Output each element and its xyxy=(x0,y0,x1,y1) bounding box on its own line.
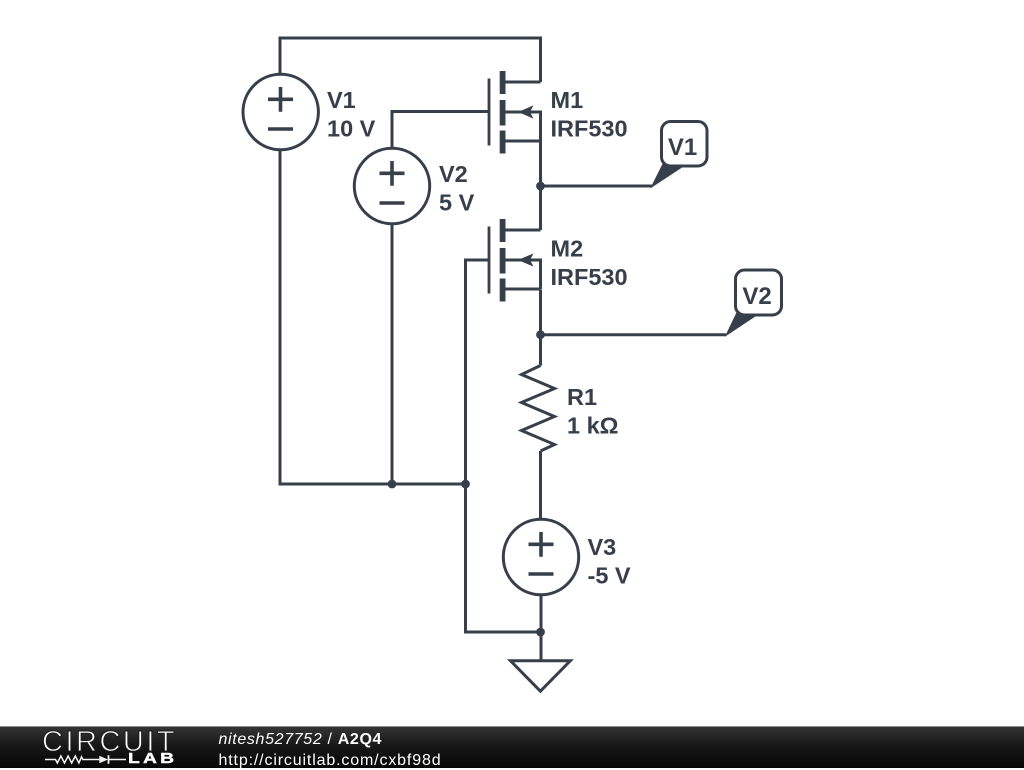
svg-text:V2: V2 xyxy=(439,161,468,187)
wire top rail V1.top to M1.drain xyxy=(280,38,541,82)
label R1 1 kOhm xyxy=(567,384,619,439)
svg-text:V2: V2 xyxy=(742,283,771,310)
node V2.bottom rail xyxy=(388,480,397,489)
wire V2.top to M1.gate xyxy=(392,112,488,149)
svg-text:M2: M2 xyxy=(551,236,584,262)
label M1 IRF530 xyxy=(551,87,628,142)
wire M2.gate down-rail to V3 bottom node xyxy=(466,260,541,632)
label M2 IRF530 xyxy=(551,236,628,291)
svg-text:5 V: 5 V xyxy=(439,190,475,216)
node M1.source/M2.drain xyxy=(536,182,545,191)
ground xyxy=(511,661,571,691)
svg-text:V1: V1 xyxy=(668,134,697,161)
voltage source V3 xyxy=(503,519,578,594)
label V3 -5 V xyxy=(588,534,631,589)
svg-text:M1: M1 xyxy=(551,87,584,113)
resistor R1 xyxy=(522,366,555,452)
footer bar xyxy=(0,726,1024,768)
wire M1.source to M2.drain xyxy=(539,141,542,230)
svg-text:10 V: 10 V xyxy=(327,116,376,142)
svg-text:R1: R1 xyxy=(567,384,597,410)
svg-text:-5 V: -5 V xyxy=(588,563,631,589)
wire M2.source to R1.top xyxy=(539,290,542,366)
label V2 5 V xyxy=(439,161,475,216)
node flag V1 xyxy=(652,122,708,188)
node V3.bottom/ground xyxy=(536,628,545,637)
svg-text:IRF530: IRF530 xyxy=(551,264,628,290)
wire R1.bottom to V3.top xyxy=(539,451,542,520)
wire V1.bottom left rail to bottom junction xyxy=(280,150,466,485)
wire V3.bottom to ground xyxy=(540,595,543,660)
node flag V2 xyxy=(726,270,782,336)
wire node to flag V2 xyxy=(541,333,727,336)
voltage source V1 xyxy=(243,74,318,149)
voltage source V2 xyxy=(354,148,429,223)
svg-text:V3: V3 xyxy=(588,534,617,560)
transistor M1 (NMOS) xyxy=(489,71,541,154)
wire V2.bottom to bottom rail xyxy=(391,224,394,485)
CircuitLab logo xyxy=(42,732,177,753)
node gate-rail junction xyxy=(461,480,470,489)
svg-text:IRF530: IRF530 xyxy=(551,116,628,142)
svg-text:1 kΩ: 1 kΩ xyxy=(567,413,619,439)
wire node to flag V1 xyxy=(541,185,653,188)
svg-text:V1: V1 xyxy=(327,87,356,113)
junction node dots xyxy=(388,182,545,637)
node M2.source/R1 xyxy=(536,330,545,339)
label V1 10 V xyxy=(327,87,376,142)
transistor M2 (NMOS) xyxy=(489,219,541,302)
